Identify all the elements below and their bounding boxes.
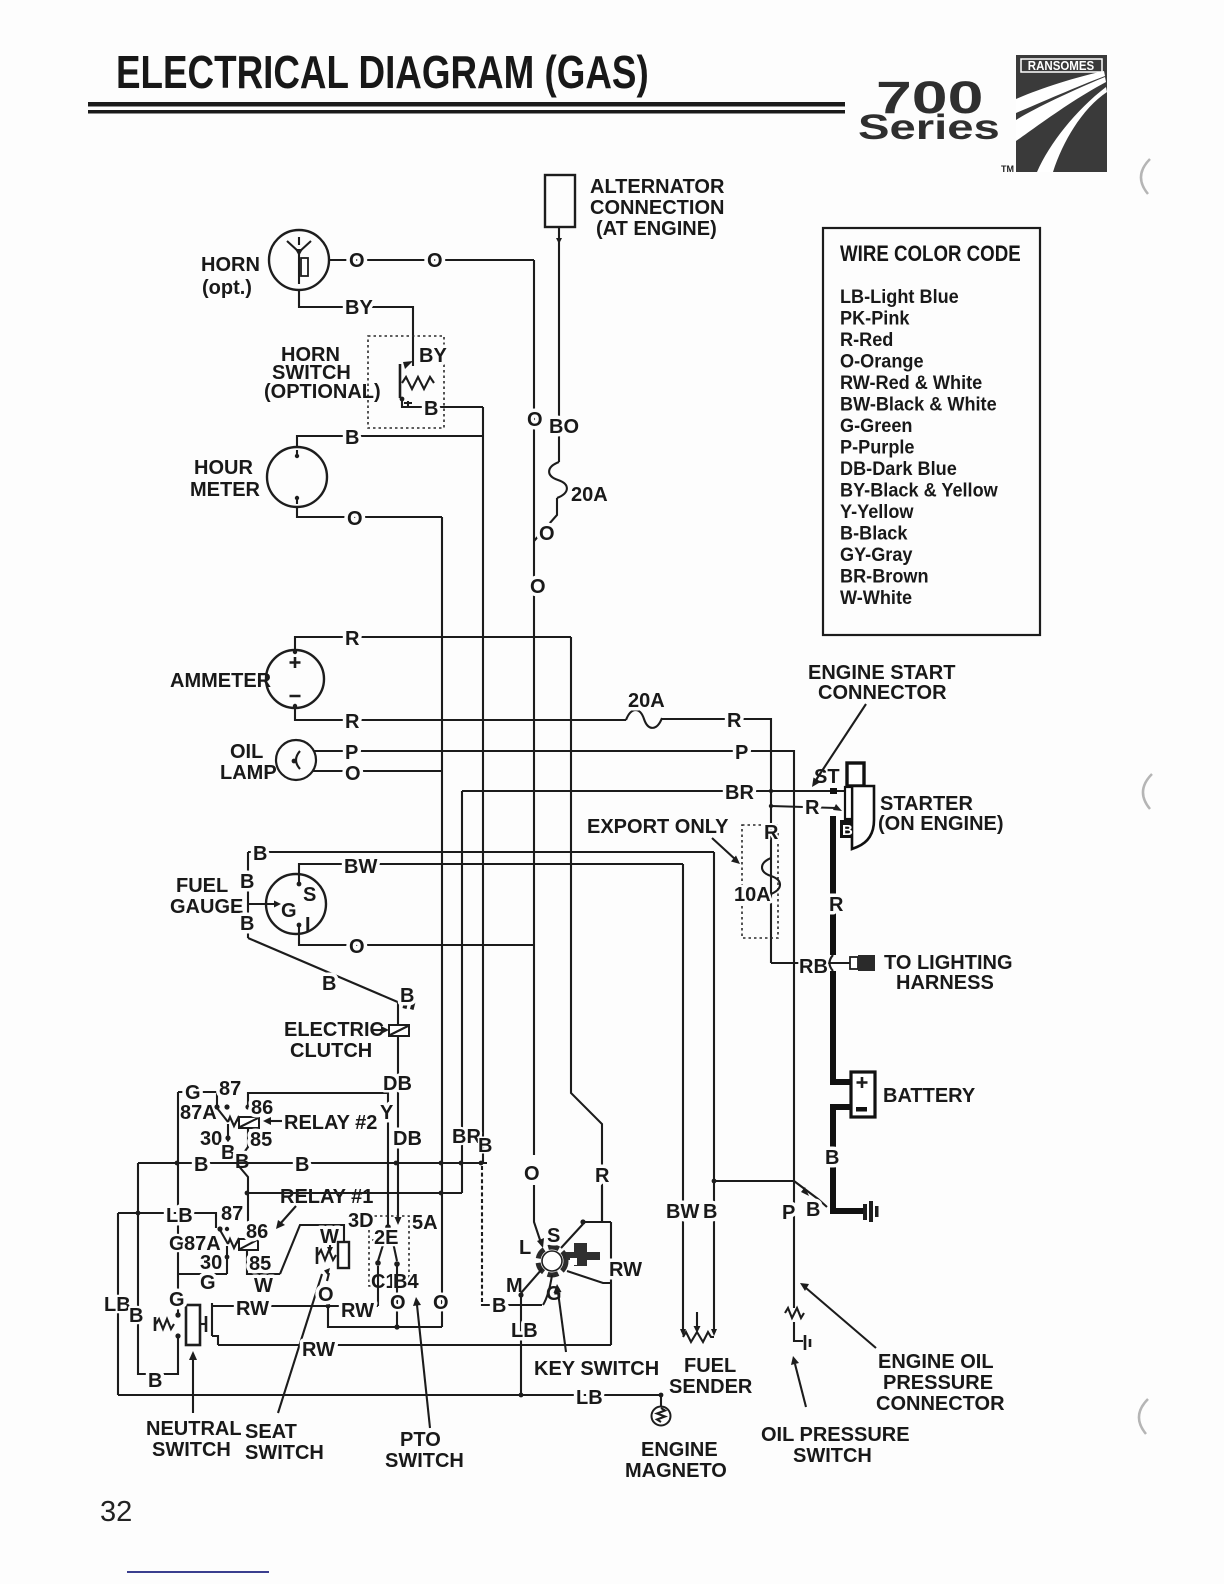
svg-text:P: P xyxy=(735,742,748,764)
wire BO merge into O bus xyxy=(534,498,557,541)
wire M diagonal xyxy=(521,1269,542,1293)
svg-text:GY-Gray: GY-Gray xyxy=(840,543,913,565)
svg-text:86: 86 xyxy=(246,1221,268,1243)
svg-text:RELAY #2: RELAY #2 xyxy=(284,1112,377,1134)
wire RW branch to key switch xyxy=(567,1271,611,1283)
svg-text:METER: METER xyxy=(190,479,261,501)
svg-text:B: B xyxy=(424,398,438,420)
wire RW long line xyxy=(218,1344,611,1346)
wire BR bus to starter xyxy=(462,790,845,792)
svg-text:PRESSURE: PRESSURE xyxy=(883,1372,993,1394)
svg-text:B: B xyxy=(478,1135,492,1157)
svg-text:L: L xyxy=(519,1237,531,1259)
svg-text:OIL: OIL xyxy=(230,741,263,763)
svg-text:TO LIGHTING: TO LIGHTING xyxy=(884,952,1013,974)
svg-text:R: R xyxy=(829,894,844,916)
svg-text:(opt.): (opt.) xyxy=(202,277,252,299)
battery cable thick B (battery to ground connector) xyxy=(833,1107,864,1211)
wire B vertical bus (horn switch to B line) xyxy=(482,407,484,1163)
svg-text:W: W xyxy=(254,1275,273,1297)
svg-text:(OPTIONAL): (OPTIONAL) xyxy=(264,381,381,403)
svg-text:CONNECTOR: CONNECTOR xyxy=(876,1393,1005,1415)
oil lamp xyxy=(220,740,316,784)
wire B4 down to O loop xyxy=(396,1266,398,1327)
key switch pointer xyxy=(558,1292,566,1352)
fuse 20A on R line xyxy=(626,710,662,728)
oil pressure switch pointer xyxy=(795,1364,806,1407)
svg-text:SWITCH: SWITCH xyxy=(245,1442,324,1464)
svg-text:87: 87 xyxy=(219,1078,241,1100)
svg-text:RANSOMES: RANSOMES xyxy=(1028,59,1094,74)
svg-text:R: R xyxy=(764,822,779,844)
arrow engine start connector xyxy=(816,704,866,780)
svg-text:ST: ST xyxy=(814,766,840,788)
wire LB left leg xyxy=(117,1213,119,1395)
svg-text:FUEL: FUEL xyxy=(176,875,228,897)
relay1 switch arm xyxy=(220,1230,228,1244)
svg-text:85: 85 xyxy=(250,1129,272,1151)
wire W relay1 to seat switch xyxy=(280,1225,344,1274)
svg-text:20A: 20A xyxy=(571,484,608,506)
svg-text:DB-Dark Blue: DB-Dark Blue xyxy=(840,457,957,479)
wire BW fuel sender xyxy=(682,864,684,1331)
svg-text:BY: BY xyxy=(345,297,373,319)
wire R vertical with jog (ammeter R to key switch R) xyxy=(571,637,602,1222)
svg-text:LAMP: LAMP xyxy=(220,762,277,784)
svg-text:O: O xyxy=(347,508,363,530)
svg-text:SEAT: SEAT xyxy=(245,1421,297,1443)
wire RB fuse to lighting connector xyxy=(771,962,852,964)
wire LB long line xyxy=(118,1394,661,1396)
horn (opt.) xyxy=(201,230,329,299)
svg-text:B: B xyxy=(842,822,853,839)
svg-text:B: B xyxy=(492,1295,506,1317)
svg-text:RW-Red & White: RW-Red & White xyxy=(840,371,982,393)
svg-text:O: O xyxy=(524,1163,540,1185)
relay1 30 leg xyxy=(226,1246,228,1274)
wire B horn switch to B bus xyxy=(402,399,483,407)
svg-text:B: B xyxy=(806,1199,820,1221)
wire BY horn to horn switch xyxy=(299,290,413,366)
wire B to key switch (dashed drop) xyxy=(481,1166,483,1304)
svg-text:G: G xyxy=(185,1082,201,1104)
svg-text:G: G xyxy=(169,1289,185,1311)
wire O stub at seat switch xyxy=(327,1301,329,1306)
svg-text:30: 30 xyxy=(200,1128,222,1150)
relay1 G bottom wire xyxy=(178,1273,227,1275)
ground connector bars xyxy=(863,1201,879,1222)
svg-text:R-Red: R-Red xyxy=(840,328,893,350)
svg-text:KEY SWITCH: KEY SWITCH xyxy=(534,1358,659,1380)
svg-text:STARTER: STARTER xyxy=(880,793,974,815)
svg-text:O: O xyxy=(345,763,361,785)
svg-text:G-Green: G-Green xyxy=(840,414,913,436)
svg-text:HARNESS: HARNESS xyxy=(896,972,994,994)
scanner edge marks xyxy=(1141,159,1150,194)
svg-text:G: G xyxy=(169,1233,185,1255)
wire O horn to O bus xyxy=(329,259,534,261)
clutch connector bars xyxy=(403,997,416,1010)
wire O loop (O bus down to PTO B4 line) xyxy=(328,1306,442,1327)
wire G curve xyxy=(543,1275,552,1305)
svg-text:ENGINE START: ENGINE START xyxy=(808,662,955,684)
wire Y relay2 86 loop down to PTO 2E xyxy=(248,1093,388,1226)
wire B left leg down to neutral switch xyxy=(138,1163,178,1374)
svg-text:BO: BO xyxy=(549,416,579,438)
svg-text:P-Purple: P-Purple xyxy=(840,436,915,458)
svg-text:BW: BW xyxy=(666,1201,699,1223)
relay1 coil xyxy=(239,1239,258,1250)
svg-text:O: O xyxy=(539,523,555,545)
svg-text:B: B xyxy=(825,1147,839,1169)
seat switch pointer xyxy=(278,1274,322,1413)
fuel sender xyxy=(669,1312,753,1398)
svg-text:MAGNETO: MAGNETO xyxy=(625,1460,727,1482)
svg-text:Series: Series xyxy=(858,107,1000,147)
electric clutch xyxy=(284,1019,409,1062)
svg-text:ENGINE: ENGINE xyxy=(641,1439,718,1461)
svg-text:PTO: PTO xyxy=(400,1429,441,1451)
svg-text:GAUGE: GAUGE xyxy=(170,896,243,918)
relay2 30 leg xyxy=(228,1124,233,1163)
svg-text:CONNECTOR: CONNECTOR xyxy=(818,682,947,704)
svg-text:CONNECTION: CONNECTION xyxy=(590,197,724,219)
svg-text:LB: LB xyxy=(166,1205,193,1227)
relay2 switch arm xyxy=(217,1108,228,1122)
svg-text:R: R xyxy=(805,797,820,819)
fuse 10A export only xyxy=(734,822,780,938)
svg-text:RW: RW xyxy=(341,1300,374,1322)
svg-text:R: R xyxy=(727,710,742,732)
svg-text:LB-Light Blue: LB-Light Blue xyxy=(840,285,959,307)
wire R fuse to corner xyxy=(661,719,771,963)
svg-text:BW-Black & White: BW-Black & White xyxy=(840,393,997,415)
svg-text:R: R xyxy=(345,628,360,650)
svg-text:B: B xyxy=(148,1370,162,1392)
svg-text:O: O xyxy=(390,1292,406,1314)
PTO switch pointer xyxy=(417,1305,430,1428)
svg-text:S: S xyxy=(547,1225,560,1247)
svg-text:R: R xyxy=(345,711,360,733)
svg-text:SWITCH: SWITCH xyxy=(793,1445,872,1467)
wire B hour meter to B bus xyxy=(297,436,483,447)
starter (on engine) xyxy=(814,763,1004,849)
wire O oil lamp to O vertical xyxy=(313,770,442,772)
wire relay1-86 horizontal link to BR vertical xyxy=(247,1192,462,1194)
svg-text:B: B xyxy=(322,973,336,995)
relay2 zigzag xyxy=(228,1117,239,1126)
ammeter xyxy=(170,650,324,708)
title double rule xyxy=(88,102,845,107)
svg-text:LB: LB xyxy=(104,1294,131,1316)
fuel gauge xyxy=(170,874,326,936)
svg-text:B: B xyxy=(240,913,254,935)
svg-text:SWITCH: SWITCH xyxy=(152,1439,231,1461)
svg-text:ALTERNATOR: ALTERNATOR xyxy=(590,176,725,198)
svg-text:B: B xyxy=(194,1154,208,1176)
svg-text:87A: 87A xyxy=(180,1102,217,1124)
wire R ammeter bottom to fuse xyxy=(295,708,626,720)
svg-text:AMMETER: AMMETER xyxy=(170,670,272,692)
svg-text:5A: 5A xyxy=(412,1212,438,1234)
wire P oil lamp xyxy=(313,751,794,1181)
svg-text:87: 87 xyxy=(221,1203,243,1225)
svg-text:Y-Yellow: Y-Yellow xyxy=(840,500,914,522)
svg-text:NEUTRAL: NEUTRAL xyxy=(146,1418,242,1440)
svg-text:BY-Black & Yellow: BY-Black & Yellow xyxy=(840,479,998,501)
svg-text:BATTERY: BATTERY xyxy=(883,1085,976,1107)
svg-text:DB: DB xyxy=(393,1128,422,1150)
wire S diagonal xyxy=(561,1224,583,1248)
svg-text:LB: LB xyxy=(576,1387,603,1409)
wire RW key switch vertical xyxy=(610,1222,612,1345)
svg-text:SWITCH: SWITCH xyxy=(385,1450,464,1472)
svg-text:G: G xyxy=(281,900,297,922)
svg-text:B: B xyxy=(703,1201,717,1223)
RANSOMES logo xyxy=(1001,55,1107,174)
svg-text:30: 30 xyxy=(200,1252,222,1274)
svg-text:ELECTRICAL DIAGRAM (GAS): ELECTRICAL DIAGRAM (GAS) xyxy=(116,46,649,98)
to lighting harness connector xyxy=(850,952,1013,994)
wire O hour meter to O vertical xyxy=(297,507,442,517)
svg-text:S: S xyxy=(303,884,316,906)
svg-text:DB: DB xyxy=(383,1073,412,1095)
wire O vertical bus (horn to key switch L) xyxy=(533,260,535,1155)
svg-text:B: B xyxy=(345,427,359,449)
relay2 G hook wire xyxy=(178,1092,217,1107)
svg-text:OIL PRESSURE: OIL PRESSURE xyxy=(761,1424,910,1446)
relay2 coil xyxy=(239,1117,259,1128)
wire O to key L terminal xyxy=(534,1185,541,1243)
wire R to starter solenoid xyxy=(771,806,836,808)
svg-text:85: 85 xyxy=(249,1253,271,1275)
wire LB horizontal to relay1 xyxy=(118,1213,216,1228)
svg-text:O: O xyxy=(318,1284,334,1306)
svg-text:B: B xyxy=(400,985,414,1007)
wire RW neutral switch upper contact xyxy=(212,1305,378,1307)
svg-text:O: O xyxy=(427,250,443,272)
svg-text:B: B xyxy=(240,871,254,893)
neutral switch pointer xyxy=(192,1358,194,1413)
wire R ammeter top xyxy=(295,637,571,650)
svg-text:FUEL: FUEL xyxy=(684,1355,736,1377)
svg-text:RW: RW xyxy=(609,1259,642,1281)
svg-text:O-Orange: O-Orange xyxy=(840,350,924,372)
svg-text:O: O xyxy=(349,250,365,272)
wire O fuel gauge xyxy=(299,925,534,945)
svg-text:CLUTCH: CLUTCH xyxy=(290,1040,372,1062)
wire B fuel gauge left leg xyxy=(247,852,249,938)
svg-text:32: 32 xyxy=(100,1496,132,1528)
svg-text:G: G xyxy=(200,1272,216,1294)
svg-text:BR-Brown: BR-Brown xyxy=(840,565,929,587)
svg-text:10A: 10A xyxy=(734,884,771,906)
wire BR vertical (starter BR to relay line) xyxy=(461,791,463,1193)
horn switch (optional) xyxy=(264,336,444,428)
fuse 20A on BO line xyxy=(549,462,567,498)
wire C1 down to RW xyxy=(377,1266,379,1306)
wire B fuel gauge top xyxy=(248,851,714,853)
wire O vertical (hour meter to PTO loop) xyxy=(441,517,443,1327)
wire B to engine ground xyxy=(714,1180,794,1182)
svg-text:Y: Y xyxy=(380,1102,394,1124)
wire B fuel sender xyxy=(713,852,715,1331)
hour meter xyxy=(190,447,327,507)
svg-text:RELAY #1: RELAY #1 xyxy=(280,1186,373,1208)
svg-text:20A: 20A xyxy=(628,690,665,712)
svg-text:SENDER: SENDER xyxy=(669,1376,753,1398)
wire BO from alternator xyxy=(558,227,560,462)
svg-text:W: W xyxy=(320,1226,339,1248)
svg-text:RW: RW xyxy=(236,1298,269,1320)
svg-text:R: R xyxy=(595,1165,610,1187)
wire G vertical (relay2 G to neutral switch) xyxy=(177,1092,179,1315)
wire DB clutch down to PTO xyxy=(397,1003,399,1218)
wire B main horizontal xyxy=(138,1162,487,1164)
svg-text:WIRE COLOR CODE: WIRE COLOR CODE xyxy=(840,243,1021,267)
svg-text:(AT ENGINE): (AT ENGINE) xyxy=(596,218,717,240)
svg-text:ENGINE OIL: ENGINE OIL xyxy=(878,1351,994,1373)
relay1 85 leg to W xyxy=(247,1250,280,1274)
svg-text:RB: RB xyxy=(799,956,828,978)
arrow export only xyxy=(712,838,736,860)
svg-text:P: P xyxy=(345,742,358,764)
svg-text:O: O xyxy=(349,936,365,958)
svg-text:O: O xyxy=(530,576,546,598)
svg-text:(ON ENGINE): (ON ENGINE) xyxy=(878,813,1004,835)
svg-text:PK-Pink: PK-Pink xyxy=(840,307,910,329)
battery xyxy=(851,1072,976,1117)
svg-text:2E: 2E xyxy=(374,1227,398,1249)
svg-text:B: B xyxy=(221,1142,235,1164)
svg-text:B: B xyxy=(253,843,267,865)
engine oil pressure connector pointer xyxy=(806,1288,876,1348)
svg-text:HORN: HORN xyxy=(201,254,260,276)
battery cable thick R (starter to battery) xyxy=(833,816,851,1082)
svg-text:3D: 3D xyxy=(348,1210,374,1232)
svg-text:RW: RW xyxy=(302,1339,335,1361)
svg-text:I: I xyxy=(305,914,311,936)
svg-text:W-White: W-White xyxy=(840,586,912,608)
svg-text:B: B xyxy=(129,1305,143,1327)
svg-text:TM: TM xyxy=(1001,164,1014,174)
svg-text:BW: BW xyxy=(344,856,377,878)
wire LB key M down xyxy=(520,1295,522,1395)
wire R/S link xyxy=(601,1186,603,1222)
svg-text:B-Black: B-Black xyxy=(840,522,908,544)
wire color code box xyxy=(823,228,1040,635)
svg-text:ELECTRIC: ELECTRIC xyxy=(284,1019,384,1041)
svg-text:O: O xyxy=(433,1292,449,1314)
footer blue rule xyxy=(127,1571,269,1573)
wire B relay2-85 to relay1-86 link xyxy=(237,1164,248,1229)
wire B diagonal to electric clutch xyxy=(248,938,400,1003)
wire BW fuel gauge xyxy=(299,864,683,884)
svg-text:HOUR: HOUR xyxy=(194,457,253,479)
svg-text:86: 86 xyxy=(251,1097,273,1119)
alternator connection box xyxy=(545,175,575,227)
svg-text:BR: BR xyxy=(725,782,754,804)
svg-text:B: B xyxy=(295,1154,309,1176)
svg-text:BY: BY xyxy=(419,345,447,367)
wire RW neutral switch lower stub to RW line xyxy=(212,1336,218,1345)
relay1 zigzag xyxy=(228,1239,239,1248)
svg-text:LB: LB xyxy=(511,1320,538,1342)
svg-text:EXPORT ONLY: EXPORT ONLY xyxy=(587,816,729,838)
svg-text:P: P xyxy=(782,1202,795,1224)
relay2 85 leg xyxy=(237,1128,248,1162)
svg-text:O: O xyxy=(527,409,543,431)
